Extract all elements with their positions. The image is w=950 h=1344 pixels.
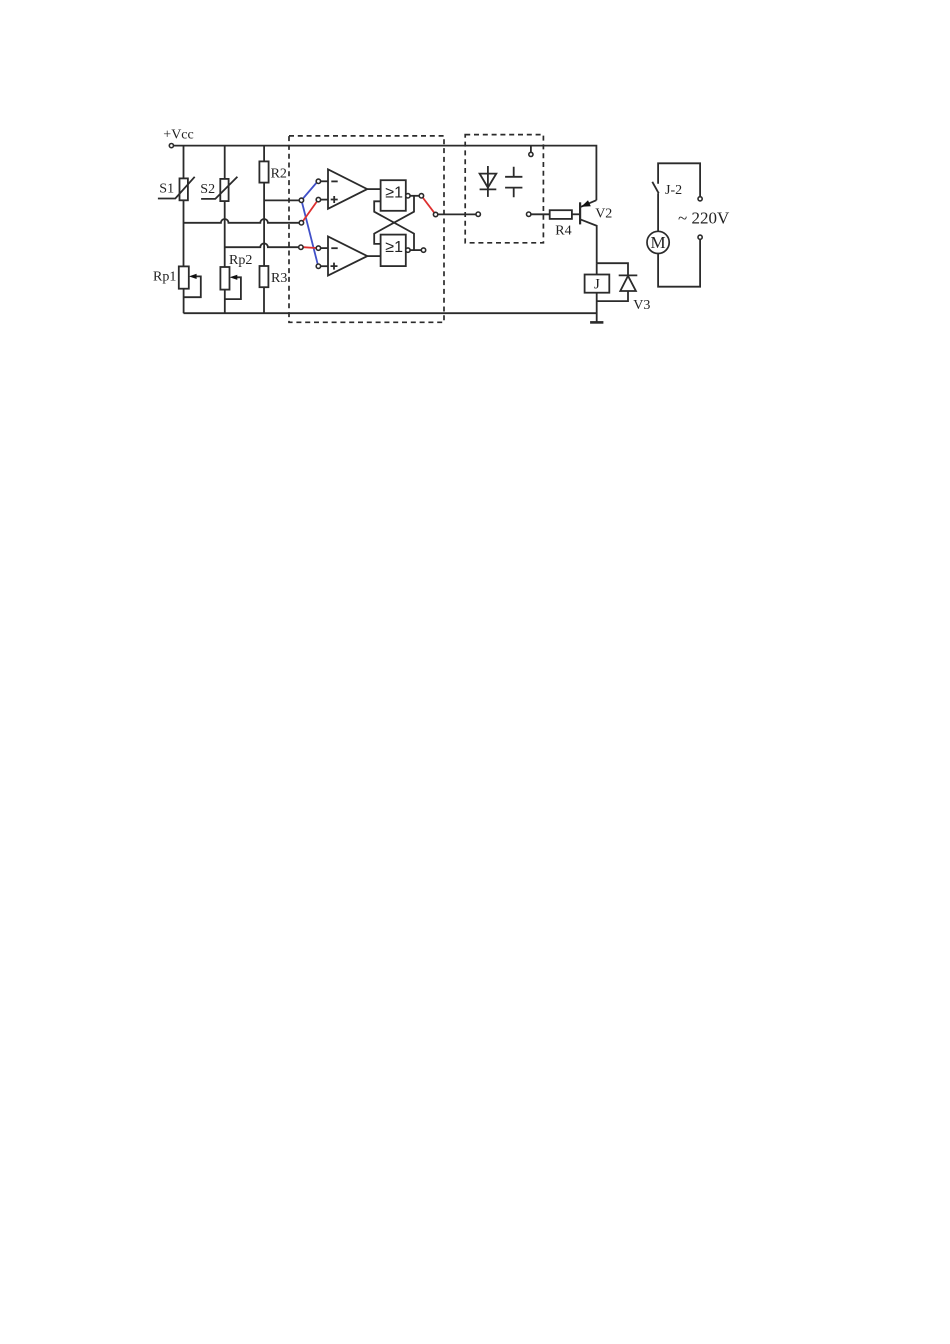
svg-text:S2: S2 — [200, 182, 215, 197]
svg-text:R2: R2 — [271, 166, 287, 181]
svg-text:~ 220V: ~ 220V — [678, 208, 730, 227]
svg-text:V3: V3 — [633, 298, 650, 313]
svg-text:R3: R3 — [271, 271, 287, 286]
svg-text:≥1: ≥1 — [385, 239, 403, 256]
svg-text:Rp2: Rp2 — [229, 253, 252, 268]
svg-text:J: J — [594, 277, 600, 293]
svg-text:R4: R4 — [555, 223, 571, 238]
svg-text:V2: V2 — [595, 207, 612, 222]
svg-text:J-2: J-2 — [665, 183, 682, 198]
svg-text:Rp1: Rp1 — [153, 270, 176, 285]
svg-text:≥1: ≥1 — [385, 185, 403, 202]
svg-text:S1: S1 — [159, 182, 174, 197]
svg-text:M: M — [651, 233, 666, 252]
svg-text:+Vcc: +Vcc — [163, 128, 193, 143]
